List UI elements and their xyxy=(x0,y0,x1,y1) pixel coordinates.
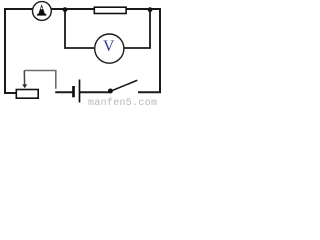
svg-text:V: V xyxy=(103,38,115,55)
svg-text:manfen5.com: manfen5.com xyxy=(88,97,157,107)
